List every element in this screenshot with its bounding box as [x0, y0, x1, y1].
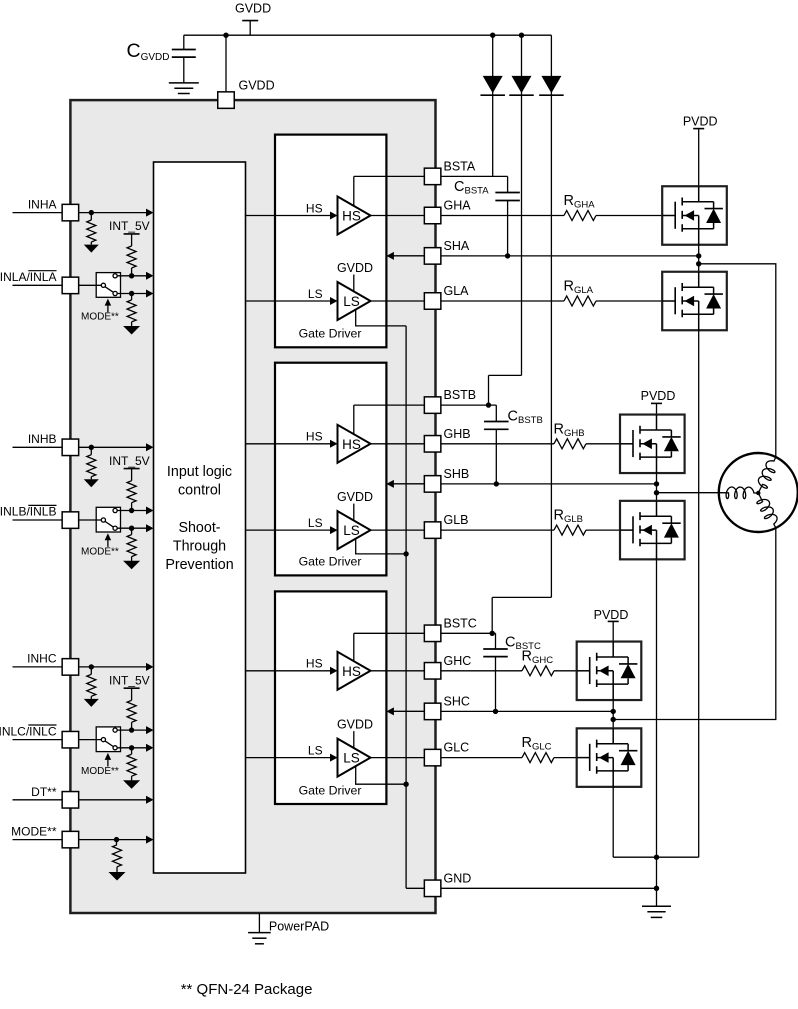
svg-text:HS: HS	[306, 657, 323, 671]
svg-text:BSTC: BSTC	[444, 616, 477, 630]
svg-text:Through: Through	[173, 538, 226, 554]
svg-text:GVDD: GVDD	[337, 261, 373, 275]
svg-text:Gate Driver: Gate Driver	[299, 327, 362, 341]
svg-text:LS: LS	[343, 523, 360, 538]
svg-text:GLA: GLA	[444, 284, 470, 298]
svg-text:Prevention: Prevention	[165, 557, 233, 573]
svg-text:Gate Driver: Gate Driver	[299, 783, 362, 797]
svg-text:HS: HS	[306, 430, 323, 444]
svg-text:INLB/INLB: INLB/INLB	[0, 505, 57, 519]
svg-text:LS: LS	[308, 287, 323, 301]
svg-text:GHB: GHB	[444, 427, 471, 441]
svg-text:Input logic: Input logic	[167, 464, 232, 480]
svg-text:INLA/INLA: INLA/INLA	[0, 270, 57, 284]
svg-text:Shoot-: Shoot-	[178, 520, 220, 536]
svg-text:INT_5V: INT_5V	[109, 673, 150, 687]
svg-text:SHB: SHB	[444, 467, 470, 481]
svg-text:INHA: INHA	[28, 197, 57, 211]
svg-text:** QFN-24 Package: ** QFN-24 Package	[181, 981, 313, 998]
svg-text:MODE**: MODE**	[11, 825, 57, 839]
svg-text:LS: LS	[308, 516, 323, 530]
svg-text:GVDD: GVDD	[337, 490, 373, 504]
svg-text:LS: LS	[343, 751, 360, 766]
svg-text:control: control	[178, 483, 221, 499]
svg-text:GLB: GLB	[444, 513, 469, 527]
svg-text:INLC/INLC: INLC/INLC	[0, 724, 57, 738]
svg-text:BSTB: BSTB	[444, 388, 477, 402]
svg-text:INT_5V: INT_5V	[109, 454, 150, 468]
svg-text:HS: HS	[342, 209, 361, 224]
svg-text:GVDD: GVDD	[235, 2, 271, 16]
svg-text:LS: LS	[343, 294, 360, 309]
svg-text:PVDD: PVDD	[683, 115, 718, 129]
svg-text:INHB: INHB	[28, 432, 57, 446]
svg-text:PVDD: PVDD	[594, 608, 629, 622]
svg-text:HS: HS	[306, 201, 323, 215]
svg-text:GLC: GLC	[444, 741, 470, 755]
svg-text:GND: GND	[444, 871, 472, 885]
svg-text:DT**: DT**	[31, 785, 57, 799]
svg-text:GHA: GHA	[444, 199, 472, 213]
svg-text:MODE**: MODE**	[81, 312, 119, 323]
svg-text:MODE**: MODE**	[81, 546, 119, 557]
svg-text:Gate Driver: Gate Driver	[299, 555, 362, 569]
svg-text:INT_5V: INT_5V	[109, 219, 150, 233]
svg-text:BSTA: BSTA	[444, 159, 476, 173]
svg-text:SHA: SHA	[444, 239, 470, 253]
svg-text:PowerPAD: PowerPAD	[269, 919, 329, 933]
svg-text:MODE**: MODE**	[81, 766, 119, 777]
svg-text:SHC: SHC	[444, 694, 470, 708]
svg-text:PVDD: PVDD	[641, 389, 676, 403]
svg-text:INHC: INHC	[27, 652, 57, 666]
svg-text:GVDD: GVDD	[239, 78, 275, 92]
svg-text:GHC: GHC	[444, 654, 472, 668]
svg-text:HS: HS	[342, 437, 361, 452]
svg-text:HS: HS	[342, 664, 361, 679]
svg-text:LS: LS	[308, 743, 323, 757]
svg-text:GVDD: GVDD	[337, 718, 373, 732]
